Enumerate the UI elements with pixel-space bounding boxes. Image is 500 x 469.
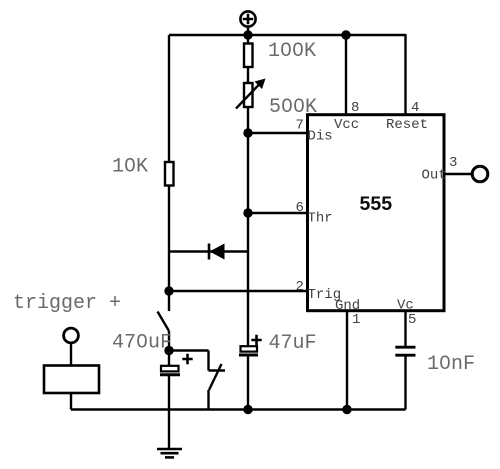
svg-text:trigger +: trigger + [13, 292, 121, 315]
svg-text:555: 555 [360, 193, 393, 215]
svg-text:5: 5 [408, 312, 416, 328]
svg-text:8: 8 [351, 100, 359, 116]
svg-text:1: 1 [352, 312, 360, 328]
svg-text:Gnd: Gnd [335, 298, 360, 314]
svg-text:4: 4 [411, 100, 419, 116]
svg-text:500K: 500K [269, 96, 317, 119]
svg-text:Dis: Dis [308, 129, 333, 145]
svg-text:Reset: Reset [386, 117, 428, 133]
svg-text:2: 2 [296, 279, 304, 295]
svg-text:Out: Out [422, 168, 447, 184]
svg-text:6: 6 [296, 200, 304, 216]
svg-text:47uF: 47uF [269, 332, 317, 355]
svg-text:3: 3 [449, 155, 457, 171]
svg-text:Vc: Vc [397, 298, 414, 314]
svg-text:100K: 100K [268, 40, 316, 63]
svg-text:7: 7 [296, 118, 304, 134]
svg-text:Thr: Thr [308, 211, 333, 227]
svg-text:10nF: 10nF [427, 353, 475, 376]
svg-text:Vcc: Vcc [334, 117, 359, 133]
